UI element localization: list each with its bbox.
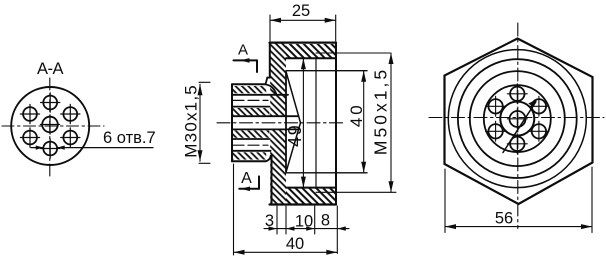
leader arrow [503,102,536,153]
circle 4 [484,85,551,152]
shank face ext line [233,164,235,255]
crosshair lower-right hole [61,128,80,147]
flange right face [335,43,337,205]
hole upper-right [63,107,77,121]
shank outer bottom line [232,160,266,162]
crosshair lower-left hole [20,128,39,147]
flange top edge [270,41,337,43]
boss circle [500,102,534,136]
chain dim ext lines [276,206,278,234]
horizontal centerline [429,117,604,119]
shank line y139 [232,138,270,140]
hole upper-left [23,107,37,121]
chain dim line [264,228,349,230]
leader line 6 holes dia 7 [31,147,153,149]
circle 2 [458,59,577,178]
dim 56 ext left [444,169,446,233]
hole center [42,117,58,133]
crosshair upper-left hole [20,104,39,123]
svg-text:40: 40 [347,102,366,127]
svg-text:A: A [238,42,248,59]
crosshair bottom hole [41,139,60,158]
cavity bottom line [286,187,336,189]
flange left face lower [271,155,273,204]
dim 56 ext right [591,167,593,233]
dim 25 line [270,19,336,21]
shank hatch band bottom inner [232,130,270,137]
flange bottom edge [270,203,337,205]
dim 56 line [445,226,592,228]
flange left face [269,43,271,78]
horizontal centerline [2,125,104,127]
thread step line [315,58,317,187]
shank line y107 [232,106,270,108]
hole upper-left right view [488,99,502,113]
shank left face [231,84,233,161]
svg-text:10: 10 [295,212,313,230]
bore40 bottom line + ext [286,172,367,174]
crosshair upper-right hole [61,104,80,123]
crosshair top hole [41,93,60,112]
shank hatch band top inner [232,108,270,115]
dim 40 bottom line [234,251,338,253]
circle 3 [470,71,565,166]
hole lower-right right view [532,124,546,138]
section mark A bottom [239,176,259,188]
hole lower-left right view [488,124,502,138]
fillet top [267,85,277,95]
hole lower-right [63,131,77,145]
shank hatch band bottom outer [232,152,266,159]
dim 40 right line [363,71,365,173]
bore line top [232,115,299,117]
outer circle [11,87,89,165]
chamfer circle [448,50,586,188]
vertical centerline [49,78,51,176]
svg-text:3: 3 [265,212,274,230]
svg-text:6 отв.7: 6 отв.7 [103,129,156,147]
hole top right view [510,87,524,101]
flange top wall hatch [286,44,336,58]
axis centerline [217,122,345,124]
collar ledge top [267,77,270,79]
dim 49 line [302,58,304,187]
flange left wall hatch lower [270,129,286,204]
svg-text:M50x1,5: M50x1,5 [371,67,391,155]
hole top [43,96,57,110]
shank hatch band top outer [232,86,266,93]
thread major top + ext [316,52,390,54]
flange bottom wall hatch [286,188,336,204]
shank dashed line bottom [233,144,268,146]
hole lower-left [23,131,37,145]
svg-text:25: 25 [292,2,310,20]
shank dashed line top [233,99,268,101]
bore40 top line + ext [286,70,367,72]
cavity top line [286,57,336,59]
shank line y95 [232,94,288,96]
bore line bottom [232,128,299,130]
svg-text:8: 8 [321,212,330,230]
shank line y151 [232,150,271,152]
crosshairs holes right view [486,84,549,154]
svg-text:A-A: A-A [37,60,64,78]
section mark A top [234,60,258,72]
dim M50x1,5 line [390,53,392,192]
svg-text:40: 40 [286,235,304,253]
hole upper-right right view [532,99,546,113]
svg-text:A: A [241,170,252,187]
hole center right view [510,111,526,127]
cavity floor [285,73,287,172]
dim M30 ext stubs [199,81,210,83]
dim 25 ext right [335,15,337,41]
hexagon [445,39,593,205]
dim 25 ext left [269,15,271,41]
collar step top [266,78,268,85]
fillet bottom [266,156,271,162]
hole bottom [43,142,57,156]
flange left wall hatch upper [270,44,286,117]
thread major bottom + ext [316,191,396,193]
crosshair center hole [40,115,59,134]
shank outer top line [232,83,266,85]
svg-text:49: 49 [285,124,305,147]
svg-text:56: 56 [495,210,513,228]
cone top [286,72,301,123]
hole bottom right view [510,137,524,151]
vertical centerline [517,23,519,229]
cone bottom [286,123,301,173]
svg-text:M30x1,5: M30x1,5 [182,84,201,158]
dim M30x1,5 line [199,84,201,161]
